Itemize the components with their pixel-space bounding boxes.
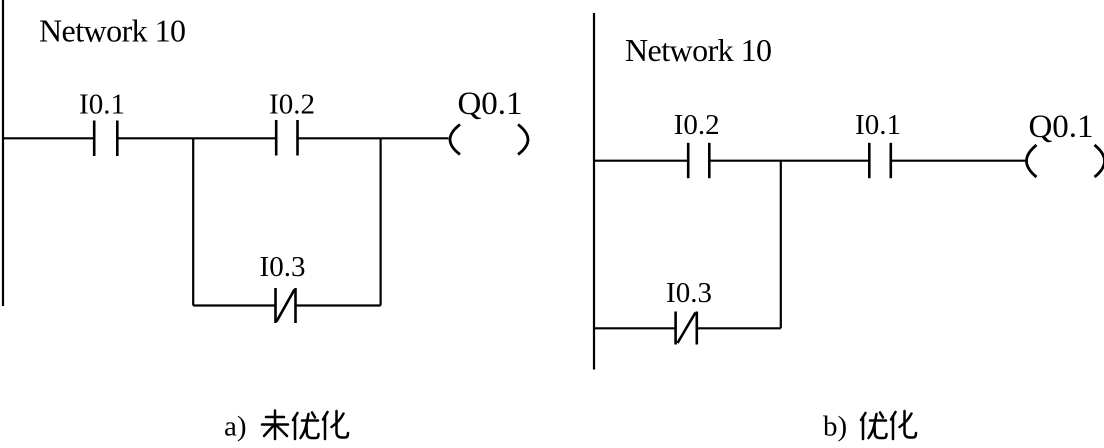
wire: branch a bottom, right segment (296, 304, 381, 306)
svg-text:I0.2: I0.2 (674, 109, 720, 141)
coil Q0.1 (network b) (1027, 145, 1104, 177)
svg-text:Q0.1: Q0.1 (457, 86, 522, 122)
wire: rung a, rail to contact I0.1 (3, 137, 94, 139)
coil Q0.1 (network a) (450, 125, 528, 155)
wire: branch a right vertical (380, 138, 382, 305)
glyph 化 (323, 411, 348, 439)
left power rail (network a) (2, 0, 4, 306)
glyph 优 (861, 413, 887, 440)
wire: branch b bottom, I0.3 to branch vertical (697, 327, 781, 329)
svg-text:I0.2: I0.2 (269, 88, 315, 120)
svg-text:I0.1: I0.1 (855, 109, 901, 141)
wire: rung b, rail to contact I0.2 (594, 160, 688, 162)
contact I0.2 (NO, network b) (688, 143, 709, 178)
glyph 化 (891, 411, 916, 439)
caption b CJK 优化 (drawn strokes) (861, 411, 916, 439)
wire: rung b, I0.1 to coil (891, 160, 1026, 162)
svg-text:a): a) (224, 411, 247, 443)
svg-text:I0.1: I0.1 (79, 88, 125, 120)
wire: branch a left vertical (192, 138, 194, 305)
contact I0.1 (NO, network b) (869, 143, 891, 178)
wire: branch b vertical (780, 161, 782, 329)
svg-text:Network 10: Network 10 (39, 13, 185, 49)
contact I0.1 (NO) (94, 121, 117, 157)
wire: branch b bottom, rail to I0.3 (594, 327, 676, 329)
right power rail (network b) (593, 13, 595, 370)
svg-text:Q0.1: Q0.1 (1028, 109, 1093, 145)
contact I0.2 (NO) (276, 120, 297, 156)
svg-text:b): b) (823, 411, 847, 443)
glyph 优 (293, 413, 319, 440)
wire: branch a bottom, left segment (193, 304, 275, 306)
svg-text:I0.3: I0.3 (666, 277, 712, 309)
caption a CJK 未优化 (drawn strokes) (262, 411, 348, 440)
svg-text:Network 10: Network 10 (625, 32, 771, 68)
wire: rung a, I0.1 to I0.2 (through branch node) (117, 137, 276, 139)
wire: rung a, I0.2 to coil (298, 137, 449, 139)
contact I0.3 (NC, network b) (676, 312, 697, 345)
svg-text:I0.3: I0.3 (260, 251, 306, 283)
contact I0.3 (NC) (276, 288, 296, 323)
wire: rung b, I0.2 to I0.1 (through branch node) (709, 160, 869, 162)
glyph 未 (262, 411, 288, 440)
